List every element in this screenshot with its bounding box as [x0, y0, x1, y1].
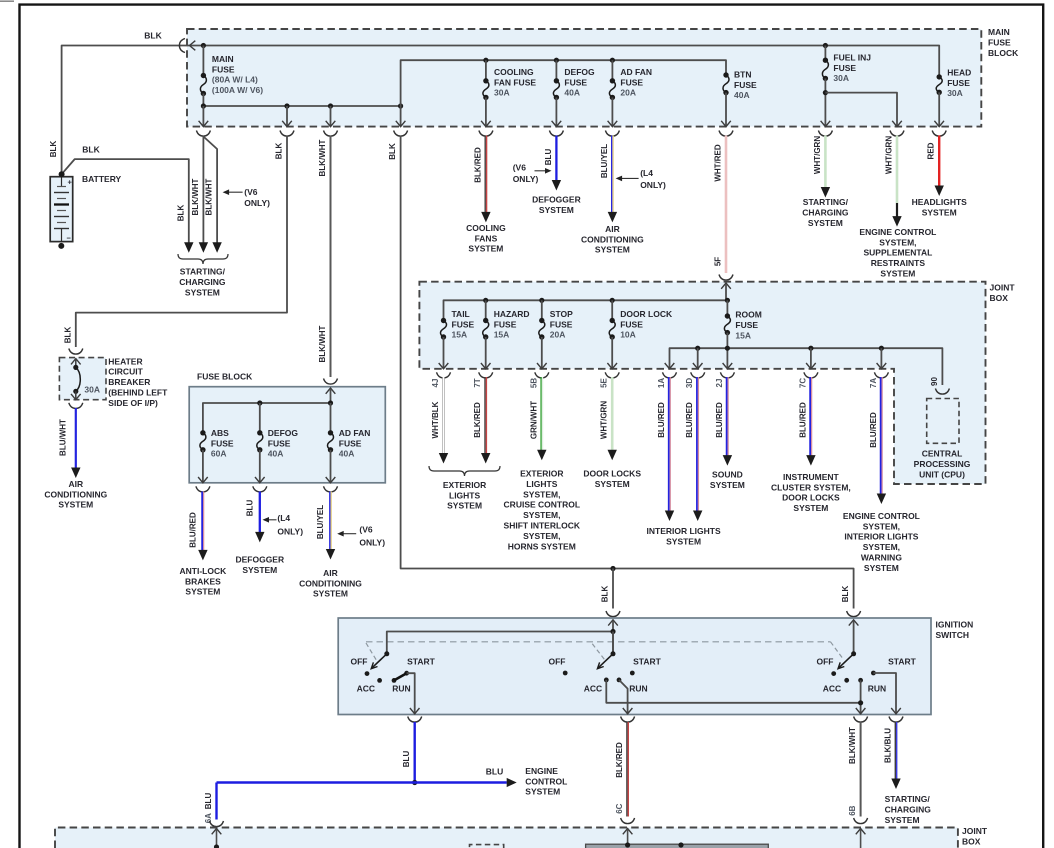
ignition switch group 3 pivot — [851, 651, 856, 656]
fuse STOP 20A — [541, 300, 543, 320]
svg-text:6B: 6B — [848, 805, 857, 815]
closed contact arm group 1 — [394, 673, 407, 680]
wire GRN/WHT 5B — [540, 377, 542, 451]
svg-text:ACC: ACC — [357, 683, 375, 693]
wire RED to headlights — [938, 136, 940, 187]
svg-text:BLU/YEL: BLU/YEL — [316, 505, 325, 539]
fuse FUEL INJ 30A — [824, 46, 826, 61]
svg-text:15A: 15A — [494, 330, 510, 340]
svg-text:OFF: OFF — [549, 656, 566, 666]
svg-text:15A: 15A — [735, 330, 751, 340]
contact OFF group 2 — [563, 671, 568, 676]
svg-text:FANS: FANS — [475, 233, 498, 243]
svg-text:BLK/WHT: BLK/WHT — [191, 178, 200, 215]
fuse AD FAN 20A — [611, 60, 613, 81]
svg-text:SUPPLEMENTAL: SUPPLEMENTAL — [864, 248, 933, 258]
wire group3 run to exit — [860, 680, 862, 714]
svg-text:BLK/WHT: BLK/WHT — [848, 727, 857, 764]
arrow air conditioning lower — [326, 549, 335, 560]
svg-text:SYSTEM: SYSTEM — [922, 208, 957, 218]
svg-text:SYSTEM: SYSTEM — [185, 587, 220, 597]
exit chevron main fuse block x=726 — [721, 121, 731, 127]
svg-text:(L4: (L4 — [277, 513, 290, 523]
joint box exit connector x=881.4 — [874, 372, 888, 378]
connector 6C — [621, 818, 635, 824]
svg-text:CHARGING: CHARGING — [179, 277, 226, 287]
contact RUN group 2 — [617, 678, 622, 683]
main fuse block box — [187, 29, 981, 127]
joint box exit chevron x=485.7 — [481, 363, 491, 369]
node cooling fan fuse top — [483, 58, 488, 63]
node lower bus 1 — [201, 103, 206, 108]
svg-text:RUN: RUN — [629, 683, 647, 693]
svg-text:−: − — [67, 234, 72, 243]
svg-text:BLU/WHT: BLU/WHT — [58, 419, 67, 456]
joint box exit connector x=485.7 — [479, 372, 493, 378]
svg-text:SYSTEM,: SYSTEM, — [523, 489, 560, 499]
contact RUN group 1 — [392, 678, 397, 683]
svg-text:FUSE: FUSE — [564, 77, 587, 87]
svg-text:BATTERY: BATTERY — [82, 174, 122, 184]
joint box bus 2 — [670, 348, 943, 385]
svg-text:SHIFT INTERLOCK: SHIFT INTERLOCK — [504, 521, 581, 531]
wire BLU ignition — [414, 722, 416, 783]
wire BLU/RED 3D — [696, 377, 698, 512]
svg-text:CONTROL: CONTROL — [525, 776, 567, 786]
svg-text:WHT/GRN: WHT/GRN — [600, 401, 609, 439]
fuse HEAD 30A — [937, 74, 942, 79]
bottom entry chevron 6B — [856, 829, 866, 835]
node bus2 7C — [808, 346, 813, 351]
svg-text:BLOCK: BLOCK — [988, 48, 1019, 58]
svg-text:LIGHTS: LIGHTS — [449, 490, 480, 500]
svg-text:ROOM: ROOM — [735, 309, 761, 319]
svg-text:SWITCH: SWITCH — [936, 630, 970, 640]
exit chevron main fuse block x=330.5 — [326, 121, 336, 127]
joint box exit chevron x=881.4 — [877, 363, 887, 369]
wire WHT/GRN 5E — [611, 377, 614, 451]
bottom CPU dashed box partial — [470, 845, 504, 848]
joint box exit connector x=727.4 — [720, 372, 734, 378]
svg-text:CLUSTER SYSTEM,: CLUSTER SYSTEM, — [771, 482, 851, 492]
wire BLU/RED 7A — [880, 377, 882, 495]
ignition exit connector BLK/BLU — [889, 717, 903, 723]
svg-text:DEFOGGER: DEFOGGER — [532, 195, 581, 205]
node bus2 3D — [695, 346, 700, 351]
svg-text:SYSTEM: SYSTEM — [313, 589, 348, 599]
wire group2 run to exit — [619, 680, 628, 715]
wire WHT/RED to joint box 5F — [725, 136, 728, 274]
brace starting charging — [178, 254, 228, 264]
arrow 3D — [693, 511, 702, 522]
brace exterior lights — [429, 466, 500, 476]
svg-text:30A: 30A — [494, 88, 510, 98]
joint box exit chevron x=612.2 — [607, 363, 617, 369]
ignition switch group 2 pivot — [612, 632, 614, 654]
svg-text:LIGHTS: LIGHTS — [526, 479, 557, 489]
ignition entry chevron right — [849, 620, 859, 626]
svg-text:BLK: BLK — [49, 141, 58, 158]
svg-text:SYSTEM: SYSTEM — [539, 205, 574, 215]
joint box exit connector x=541.8 — [535, 372, 549, 378]
node bus1 door lock — [610, 298, 615, 303]
svg-text:10A: 10A — [620, 330, 636, 340]
svg-text:EXTERIOR: EXTERIOR — [520, 469, 563, 479]
svg-text:AIR: AIR — [323, 568, 338, 578]
fuse DEFOG 40A — [555, 60, 557, 81]
arrow 7C — [806, 455, 815, 466]
exit connector main fuse block x=556.4 — [549, 131, 563, 137]
wire ignition internal bus — [612, 621, 614, 632]
ignition entry connector right — [847, 611, 861, 617]
ignition exit connector BLK/WHT — [854, 717, 868, 723]
arrow air conditioning heater — [71, 468, 80, 479]
svg-text:5B: 5B — [529, 378, 538, 388]
svg-text:20A: 20A — [550, 330, 566, 340]
svg-text:BLK/RED: BLK/RED — [473, 402, 482, 438]
svg-text:BLK/WHT: BLK/WHT — [205, 178, 214, 215]
wire BLK/RED to cooling fans — [484, 136, 486, 214]
contact ACC group 1 — [377, 678, 382, 683]
ignition entry chevron middle — [608, 620, 618, 626]
fuse block bus — [203, 403, 331, 433]
connector CPU — [935, 389, 949, 395]
node bottom bar 2 — [678, 842, 683, 847]
node bus1 hazard — [483, 298, 488, 303]
svg-text:BLK/RED: BLK/RED — [473, 147, 482, 183]
page top edge artifact — [0, 0, 14, 2]
svg-text:BLU: BLU — [245, 500, 254, 517]
main fuse block exits wires to bottom edge — [202, 106, 204, 127]
wire BLK/RED 7T — [484, 377, 486, 454]
ignition switch box — [338, 618, 931, 715]
arrow air conditioning — [608, 212, 617, 223]
wire bus2 drop 7A — [880, 348, 882, 369]
heater breaker exit chevron — [75, 391, 77, 399]
exit connector main fuse block x=825.4 — [818, 131, 832, 137]
svg-text:SYSTEM: SYSTEM — [808, 218, 843, 228]
svg-text:BLK: BLK — [841, 586, 850, 603]
svg-text:MAIN: MAIN — [212, 54, 234, 64]
arrow 7T — [481, 453, 490, 464]
svg-text:HEADLIGHTS: HEADLIGHTS — [912, 197, 968, 207]
joint box exit connector x=612.2 — [605, 372, 619, 378]
svg-text:JOINT: JOINT — [990, 283, 1016, 293]
svg-text:FUSE: FUSE — [550, 319, 573, 329]
svg-text:SYSTEM: SYSTEM — [595, 245, 630, 255]
svg-text:DEFOGGER: DEFOGGER — [235, 554, 284, 564]
svg-text:WHT/BLK: WHT/BLK — [431, 401, 440, 438]
svg-text:UNIT (CPU): UNIT (CPU) — [919, 470, 965, 480]
svg-text:2J: 2J — [715, 379, 724, 388]
wire WHT/BLK 4J — [442, 377, 445, 454]
svg-text:WHT/GRN: WHT/GRN — [885, 136, 894, 174]
wire BLK to heater circuit breaker — [76, 136, 287, 348]
arrow 4J — [439, 453, 448, 464]
svg-text:6C: 6C — [615, 803, 624, 813]
svg-text:FUSE BLOCK: FUSE BLOCK — [197, 372, 253, 382]
svg-text:SYSTEM: SYSTEM — [666, 536, 701, 546]
fuse block exit connector x=202.9 — [196, 486, 210, 492]
exit connector main fuse block x=726 — [719, 131, 733, 137]
svg-text:WHT/RED: WHT/RED — [714, 144, 723, 182]
svg-text:(V6: (V6 — [359, 525, 373, 535]
svg-text:START: START — [888, 656, 917, 666]
node bus2 room — [725, 346, 730, 351]
main fuse block lower bus — [203, 105, 400, 107]
svg-text:SOUND: SOUND — [712, 470, 743, 480]
node fuel inj fuse output — [823, 90, 828, 95]
svg-text:BLK: BLK — [82, 144, 100, 154]
svg-text:ENGINE: ENGINE — [525, 766, 558, 776]
svg-text:SYSTEM: SYSTEM — [793, 503, 828, 513]
svg-text:COOLING: COOLING — [494, 67, 534, 77]
svg-text:FUSE: FUSE — [947, 78, 970, 88]
wire BLU to defogger — [555, 136, 557, 182]
joint box (middle) — [419, 282, 985, 484]
svg-text:RESTRAINTS: RESTRAINTS — [871, 258, 926, 268]
joint box exit chevron x=541.8 — [537, 363, 547, 369]
svg-text:STOP: STOP — [550, 309, 573, 319]
svg-text:30A: 30A — [947, 88, 963, 98]
svg-text:ONLY): ONLY) — [277, 526, 303, 536]
exit chevron main fuse block x=556.4 — [552, 121, 562, 127]
svg-text:SYSTEM: SYSTEM — [595, 479, 630, 489]
svg-text:FUSE: FUSE — [988, 38, 1011, 48]
svg-text:SYSTEM: SYSTEM — [468, 244, 503, 254]
svg-text:ANTI-LOCK: ANTI-LOCK — [180, 566, 228, 576]
svg-text:BLK: BLK — [176, 205, 185, 222]
svg-text:RUN: RUN — [868, 683, 886, 693]
bottom entry chevron 6C — [623, 829, 633, 835]
svg-text:CIRCUIT: CIRCUIT — [108, 367, 143, 377]
svg-text:FUSE: FUSE — [211, 438, 234, 448]
wire BLK drop middle ignition — [612, 569, 614, 609]
svg-text:BLK: BLK — [601, 586, 610, 603]
svg-text:BLU: BLU — [544, 149, 553, 166]
svg-text:BLU/RED: BLU/RED — [715, 402, 724, 438]
svg-text:FUSE: FUSE — [620, 319, 643, 329]
wire BLU/RED 7C — [809, 377, 811, 456]
wire bus2 drop 3D — [697, 348, 699, 369]
svg-text:INSTRUMENT: INSTRUMENT — [783, 472, 840, 482]
svg-text:ENGINE CONTROL: ENGINE CONTROL — [843, 511, 920, 521]
svg-text:PROCESSING: PROCESSING — [914, 459, 971, 469]
svg-text:SYSTEM: SYSTEM — [885, 815, 920, 825]
svg-text:BLU/RED: BLU/RED — [798, 402, 807, 438]
svg-text:ABS: ABS — [211, 428, 229, 438]
svg-text:BLU: BLU — [204, 793, 213, 810]
svg-text:HEAD: HEAD — [947, 67, 971, 77]
arrow 7A — [877, 494, 886, 505]
fuse TAIL 15A — [441, 318, 446, 323]
svg-text:5E: 5E — [600, 377, 609, 387]
fuse MAIN (80A W/L4, 100A W/V6) — [202, 46, 204, 76]
svg-text:SYSTEM: SYSTEM — [242, 565, 277, 575]
joint box exit connector x=697.7 — [691, 372, 705, 378]
svg-text:SYSTEM,: SYSTEM, — [523, 510, 560, 520]
exit connector main fuse block x=203.4 — [196, 131, 210, 137]
switch arm group 1 — [372, 654, 387, 668]
svg-text:DEFOG: DEFOG — [564, 67, 595, 77]
svg-text:CONDITIONING: CONDITIONING — [299, 578, 362, 588]
svg-text:CHARGING: CHARGING — [885, 804, 932, 814]
svg-text:BREAKER: BREAKER — [108, 377, 150, 387]
svg-text:30A: 30A — [84, 384, 100, 394]
svg-text:FUSE: FUSE — [620, 77, 643, 87]
exit connector main fuse block x=897 — [890, 131, 904, 137]
joint box exit chevron x=810.9 — [806, 363, 816, 369]
fuse block exit chevron x=330.5 — [326, 477, 336, 483]
svg-text:BLK/RED: BLK/RED — [615, 742, 624, 778]
arrow BLK/WHT 1 — [199, 242, 208, 253]
svg-text:7T: 7T — [473, 378, 482, 387]
arrow starting charging right — [821, 187, 830, 198]
svg-text:90: 90 — [930, 377, 939, 386]
svg-text:SYSTEM: SYSTEM — [447, 501, 482, 511]
svg-text:FAN FUSE: FAN FUSE — [494, 77, 536, 87]
exit connector main fuse block x=400.6 — [394, 131, 408, 137]
heater breaker entry chevron — [71, 359, 81, 365]
svg-text:CHARGING: CHARGING — [802, 208, 849, 218]
svg-text:BLU: BLU — [402, 751, 411, 768]
exit chevron main fuse block x=825.4 — [821, 121, 831, 127]
wire BLU/WHT to air conditioning — [75, 408, 77, 468]
svg-text:FUEL INJ: FUEL INJ — [833, 52, 871, 62]
fuse ABS 60A — [200, 430, 205, 435]
node BLU junction — [412, 780, 417, 785]
svg-text:FUSE: FUSE — [833, 63, 856, 73]
svg-text:BLU: BLU — [486, 766, 503, 776]
svg-text:HORNS SYSTEM: HORNS SYSTEM — [508, 541, 576, 551]
svg-text:DOOR LOCKS: DOOR LOCKS — [782, 493, 840, 503]
svg-text:OFF: OFF — [817, 656, 834, 666]
arrow 1A — [665, 511, 674, 522]
exit chevron main fuse block x=287 — [282, 121, 292, 127]
node defog fuse top — [554, 58, 559, 63]
exit connector main fuse block x=330.5 — [324, 131, 338, 137]
arrow anti-lock brakes — [198, 550, 207, 561]
svg-text:SYSTEM: SYSTEM — [58, 500, 93, 510]
svg-text:4J: 4J — [431, 379, 440, 388]
wire BLK long to ignition switch — [401, 136, 854, 609]
svg-text:BOX: BOX — [962, 837, 981, 847]
svg-text:40A: 40A — [339, 449, 355, 459]
heater breaker exit connector — [69, 403, 83, 409]
node bus2 7A — [879, 346, 884, 351]
node ad fan fuse top — [610, 58, 615, 63]
connector into main fuse block — [179, 39, 185, 53]
svg-text:SYSTEM: SYSTEM — [525, 787, 560, 797]
exit chevron main fuse block x=485.9 — [481, 121, 491, 127]
arrow 5E — [608, 450, 617, 461]
svg-text:(V6: (V6 — [244, 187, 257, 197]
battery — [50, 177, 72, 242]
battery plates — [61, 177, 63, 187]
arrow engine control bottom — [507, 778, 517, 787]
svg-text:GRN/WHT: GRN/WHT — [529, 401, 538, 439]
switch arm group 3 — [839, 654, 854, 668]
wire BLU/YEL to air conditioning lower — [329, 492, 331, 551]
svg-text:CRUISE CONTROL: CRUISE CONTROL — [504, 500, 581, 510]
wire WHT/GRN to engine control — [896, 136, 899, 204]
wire WHT/GRN to starting charging — [824, 136, 827, 189]
svg-text:FUSE: FUSE — [494, 319, 517, 329]
svg-text:(100A W/ V6): (100A W/ V6) — [212, 85, 263, 95]
svg-text:FUSE: FUSE — [212, 64, 235, 74]
exit chevron main fuse block x=897 — [892, 121, 902, 127]
fuse COOLING FAN 30A — [485, 60, 487, 81]
connector 6B — [854, 818, 868, 824]
svg-text:6A: 6A — [204, 813, 213, 823]
svg-text:START: START — [407, 656, 436, 666]
fuse block exit chevron x=259.8 — [255, 477, 265, 483]
svg-text:15A: 15A — [452, 330, 468, 340]
svg-text:INTERIOR LIGHTS: INTERIOR LIGHTS — [647, 526, 721, 536]
svg-text:BLK: BLK — [275, 143, 284, 160]
svg-text:SYSTEM: SYSTEM — [864, 563, 899, 573]
joint box entry chevron 5F — [721, 283, 731, 289]
fuse block exit chevron x=202.9 — [198, 477, 208, 483]
contact ACC group 3 — [844, 678, 849, 683]
arrow headlights — [935, 186, 944, 197]
svg-text:HEATER: HEATER — [108, 356, 142, 366]
svg-text:COOLING: COOLING — [466, 223, 506, 233]
wire BLU to defogger lower — [259, 492, 261, 534]
svg-text:40A: 40A — [734, 90, 750, 100]
joint box entry connector 5F — [719, 275, 733, 281]
node bus1 room entry — [725, 298, 730, 303]
fuse block box — [189, 387, 385, 483]
svg-text:SYSTEM,: SYSTEM, — [863, 521, 900, 531]
svg-text:FUSE: FUSE — [734, 80, 757, 90]
svg-text:BLU/RED: BLU/RED — [685, 402, 694, 438]
wire BLK battery to starting-charging — [62, 159, 189, 243]
contact START corner group 1 — [404, 671, 409, 676]
arrow 5B — [537, 450, 546, 461]
svg-text:STARTING/: STARTING/ — [180, 266, 226, 276]
svg-text:BLK/WHT: BLK/WHT — [318, 325, 327, 362]
node fuse block ad fan — [328, 400, 333, 405]
fuse HAZARD 15A — [485, 300, 487, 320]
joint box exit chevron x=727.4 — [723, 363, 733, 369]
svg-text:BLU/RED: BLU/RED — [657, 402, 666, 438]
wire bus2 drop 7C — [810, 348, 812, 369]
connector 6A — [210, 821, 224, 827]
joint box exit chevron x=697.7 — [693, 363, 703, 369]
svg-text:40A: 40A — [268, 449, 284, 459]
svg-text:SYSTEM: SYSTEM — [880, 269, 915, 279]
fuse AD FAN 40A lower — [330, 403, 332, 433]
svg-text:SYSTEM: SYSTEM — [185, 287, 220, 297]
node group3 run junction — [858, 700, 863, 705]
svg-text:RUN: RUN — [392, 683, 410, 693]
svg-text:SYSTEM,: SYSTEM, — [523, 531, 560, 541]
svg-text:STARTING/: STARTING/ — [803, 197, 849, 207]
node lower bus 2 — [284, 103, 289, 108]
node BLK ignition middle — [610, 566, 615, 571]
ignition switch group 1 pivot — [384, 651, 389, 656]
fuse block entry connector — [324, 379, 338, 385]
svg-text:BLK: BLK — [144, 30, 162, 40]
wire battery to main fuse block top bus BLK — [62, 46, 940, 175]
node bus1 stop — [539, 298, 544, 303]
svg-text:FUSE: FUSE — [735, 320, 758, 330]
svg-text:DEFOG: DEFOG — [268, 428, 299, 438]
svg-text:IGNITION: IGNITION — [936, 620, 974, 630]
svg-text:OFF: OFF — [351, 656, 368, 666]
wire BLK/RED 6C — [626, 722, 628, 817]
